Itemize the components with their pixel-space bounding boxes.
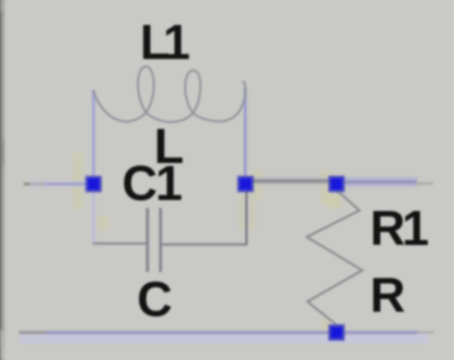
- chroma tint at resistor top: [327, 194, 341, 208]
- label C value: [137, 276, 172, 325]
- wire bottom rail faint tail: [416, 331, 434, 333]
- capacitor C1 right riser wire: [245, 190, 247, 245]
- inductor L1 right riser wire: [244, 88, 247, 180]
- node B: [239, 177, 253, 191]
- left window edge: [0, 0, 8, 360]
- capacitor C1 right lead wire: [162, 243, 248, 245]
- label C1: [122, 160, 183, 209]
- capacitor C1 left lead wire: [93, 242, 147, 244]
- left edge top lightening: [0, 0, 9, 12]
- chroma tint near node A: [72, 152, 83, 210]
- chroma tint left of node C: [320, 170, 329, 204]
- capacitor C1 right plate: [159, 208, 162, 272]
- chroma tint near bottom node: [322, 320, 331, 332]
- label L value: [154, 123, 184, 172]
- wire bottom rail lavender glow: [20, 334, 428, 344]
- wire node B to node C halo: [247, 177, 334, 185]
- label R value: [370, 272, 405, 321]
- inductor L1 left riser wire: [92, 90, 95, 180]
- chroma tint right of node B: [253, 170, 262, 200]
- wire input left: [24, 183, 49, 186]
- chroma tint flanking cap riser left: [239, 196, 244, 230]
- label R1: [370, 205, 429, 254]
- left edge bottom lightening: [0, 330, 9, 360]
- capacitor C1 left riser wire: [92, 190, 94, 243]
- wire input halo: [30, 181, 88, 188]
- wire node B to node C: [247, 179, 334, 183]
- wire node C to right end halo: [338, 177, 417, 187]
- wire right faint tail: [415, 182, 433, 184]
- node C: [330, 177, 344, 191]
- inductor L1 coil: [94, 66, 246, 122]
- label L1: [140, 19, 190, 68]
- chroma tint below node A: [98, 216, 109, 230]
- wire bottom rail: [46, 331, 418, 334]
- left edge darker bottom corner: [0, 328, 5, 348]
- left edge mid smudge: [0, 140, 4, 166]
- node A: [87, 177, 101, 191]
- wire node C to right end: [338, 180, 417, 184]
- chroma tint flanking cap riser right: [250, 196, 255, 230]
- wire input to node A: [46, 182, 88, 185]
- capacitor C1 left plate: [146, 208, 149, 272]
- wire bottom rail left end: [19, 331, 46, 334]
- left edge darker top corner: [0, 0, 4, 14]
- resistor R1 zigzag: [307, 190, 363, 325]
- node D ground-rail junction: [330, 326, 344, 340]
